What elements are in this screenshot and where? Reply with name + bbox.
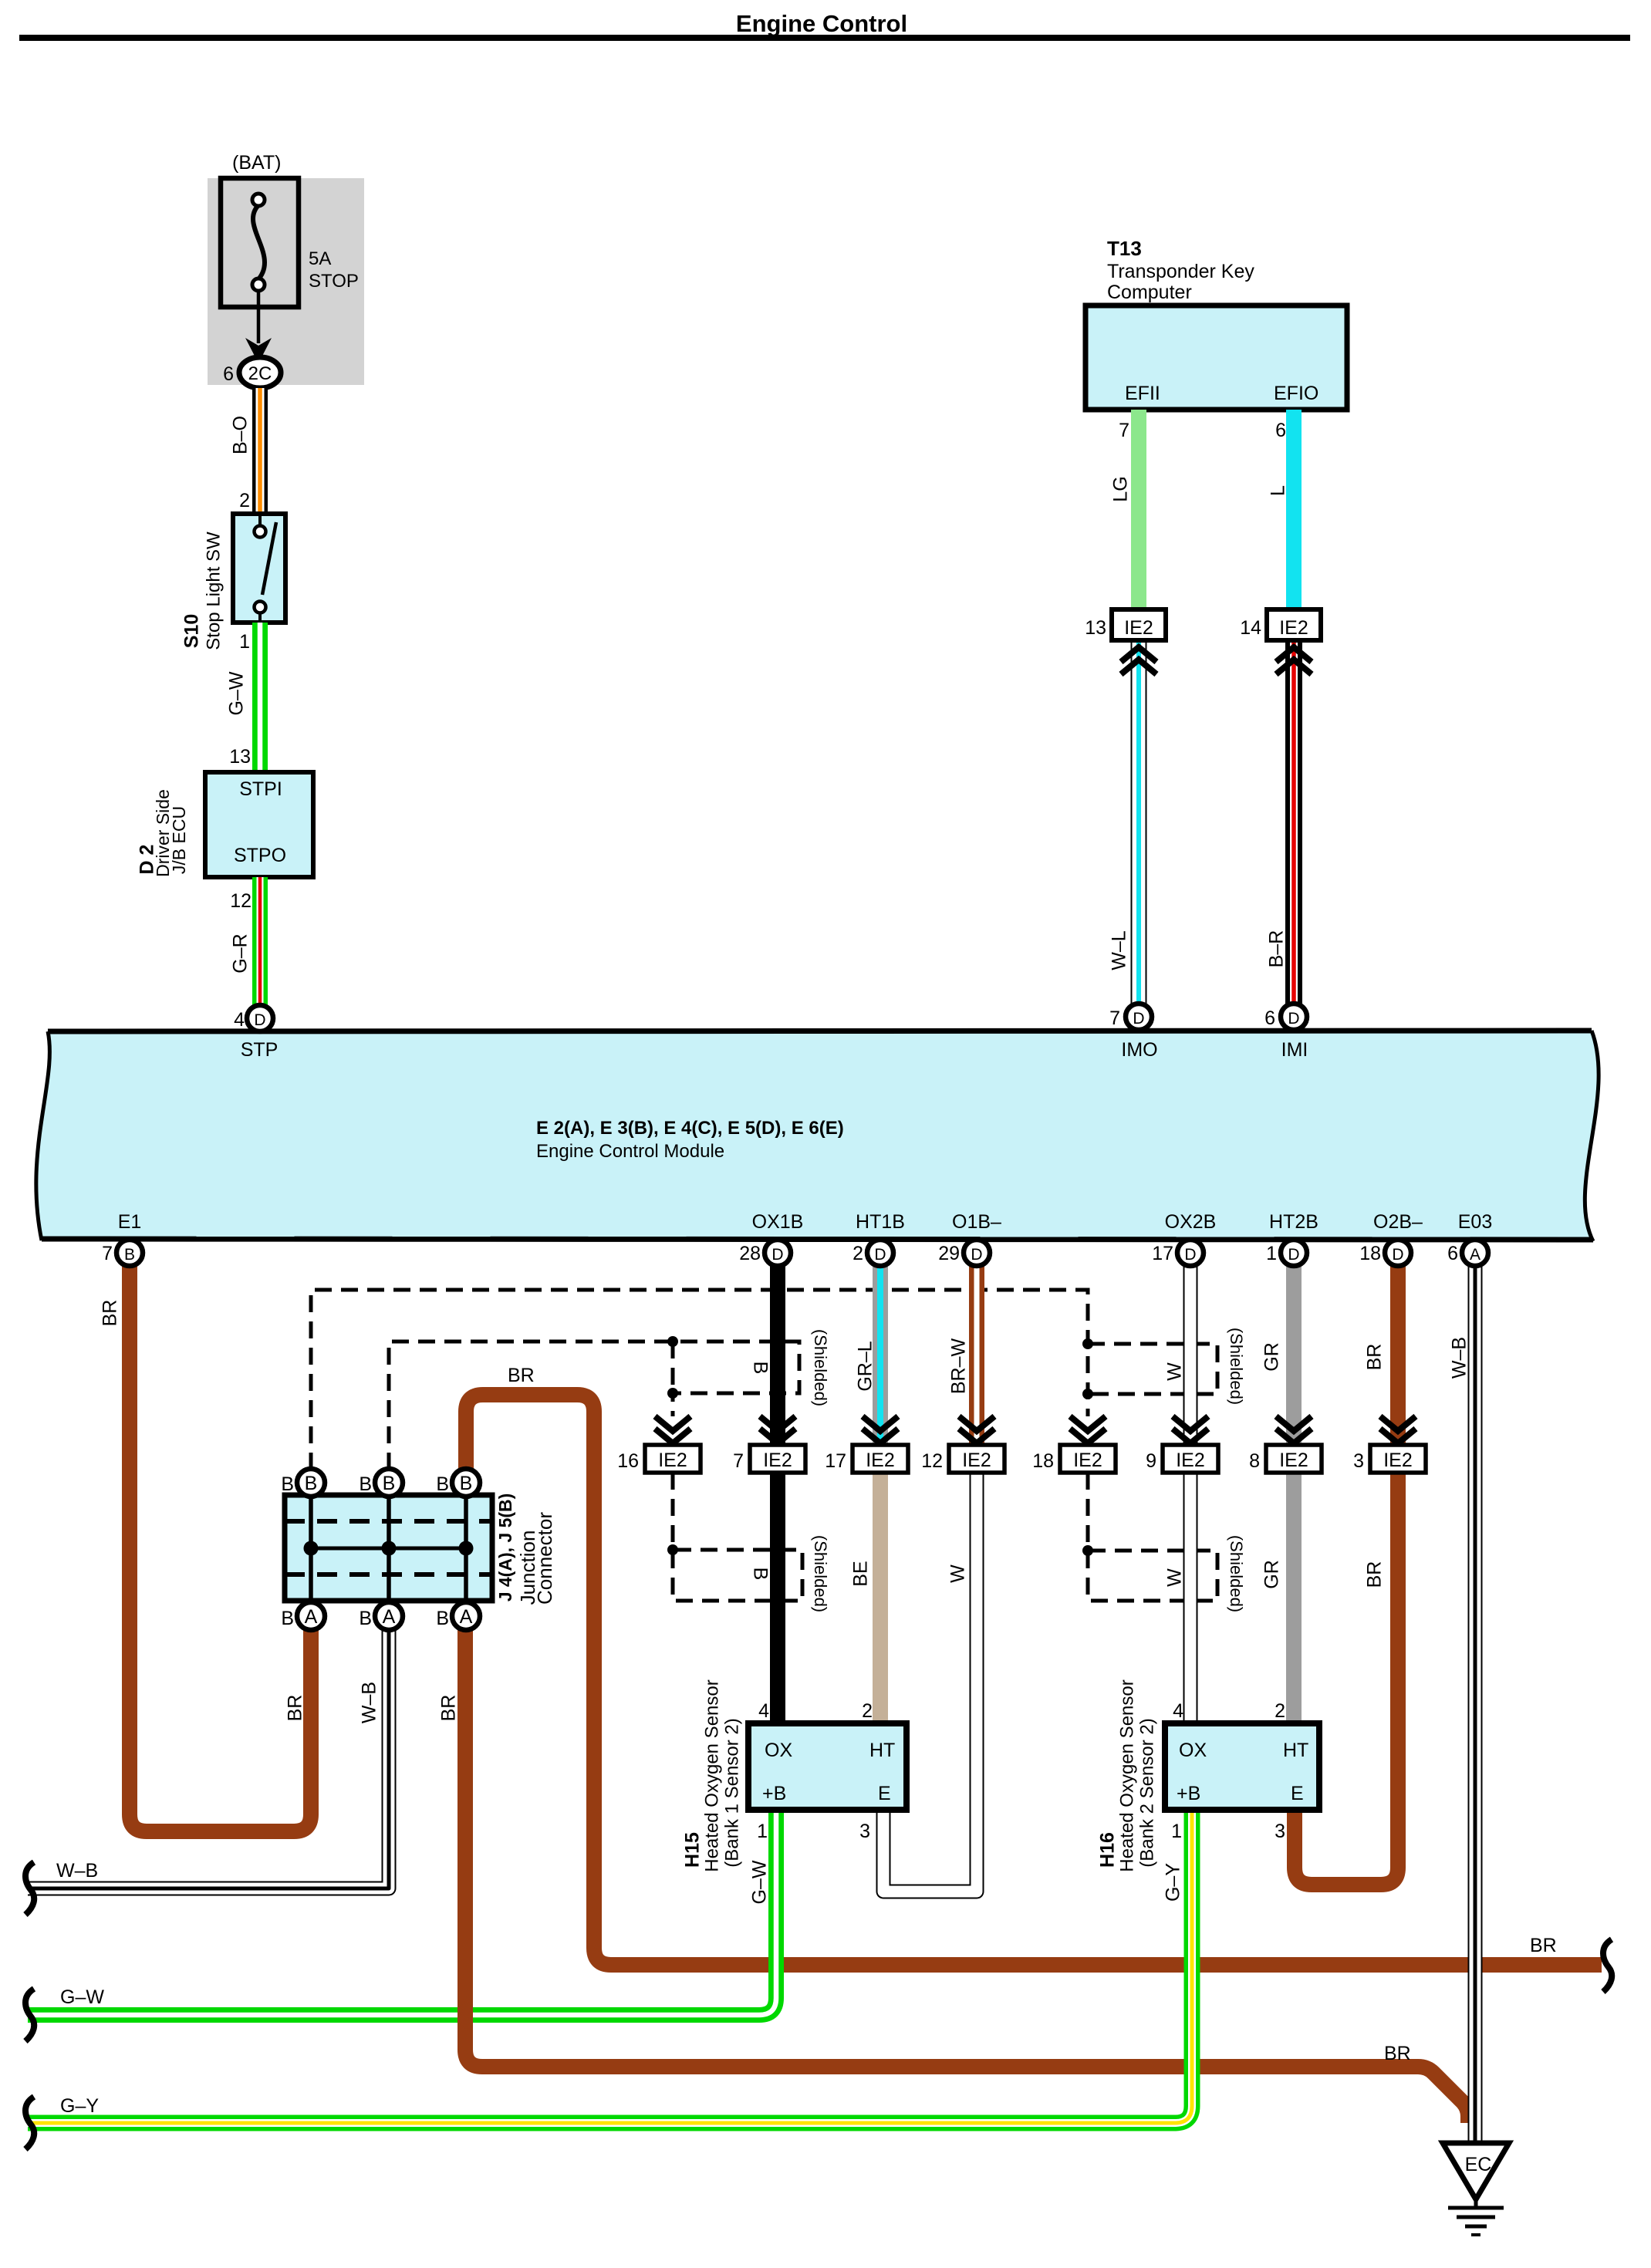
- svg-text:BR: BR: [285, 1695, 306, 1722]
- svg-text:Transponder Key: Transponder Key: [1107, 261, 1254, 282]
- svg-text:D: D: [874, 1246, 886, 1264]
- switch contacts and blade: [258, 514, 262, 526]
- dashed from IE2 16 to lower shield box: [673, 1473, 802, 1601]
- svg-text:7: 7: [1109, 1007, 1120, 1029]
- svg-text:D: D: [1288, 1010, 1299, 1028]
- svg-text:BR: BR: [100, 1300, 121, 1327]
- dashed shield bus 2 (to junction B2 and OX1B shield): [389, 1342, 799, 1470]
- svg-text:B: B: [359, 1608, 372, 1629]
- svg-text:2C: 2C: [248, 363, 272, 384]
- svg-text:B: B: [749, 1568, 771, 1581]
- svg-text:STPO: STPO: [234, 845, 286, 866]
- svg-text:IE2: IE2: [1124, 617, 1153, 639]
- svg-text:J 4(A), J 5(B): J 4(A), J 5(B): [495, 1493, 515, 1602]
- pin 7 D IMO: [1126, 1004, 1152, 1030]
- svg-text:4: 4: [758, 1700, 769, 1722]
- connector box 8 IE2: [1266, 1445, 1322, 1473]
- svg-text:Engine Control: Engine Control: [736, 10, 907, 37]
- svg-text:GR: GR: [1261, 1342, 1283, 1372]
- H15 Heated Oxygen Sensor box: [748, 1723, 907, 1810]
- pin 17 D OX2B: [1177, 1240, 1204, 1266]
- svg-text:IE2: IE2: [763, 1450, 792, 1471]
- svg-text:GR: GR: [1261, 1560, 1283, 1589]
- wire G-W (switch to D2): [252, 623, 268, 772]
- svg-text:9: 9: [1146, 1450, 1156, 1472]
- pin 6 D IMI: [1281, 1004, 1307, 1030]
- svg-text:Stop Light SW: Stop Light SW: [203, 532, 224, 650]
- svg-text:G–W: G–W: [749, 1860, 771, 1904]
- svg-text:W–L: W–L: [1109, 930, 1130, 970]
- svg-text:E: E: [878, 1783, 891, 1804]
- svg-text:HT2B: HT2B: [1269, 1211, 1318, 1233]
- junction internal dashed lines: [285, 1519, 492, 1524]
- svg-text:E1: E1: [118, 1211, 142, 1233]
- svg-text:D: D: [1392, 1246, 1403, 1264]
- wire BR O2B- to H16 E: [1295, 1266, 1398, 1885]
- svg-text:IE2: IE2: [1279, 617, 1308, 639]
- svg-text:12: 12: [921, 1450, 943, 1472]
- EC ground triangle: [1443, 2143, 1509, 2199]
- svg-text:28: 28: [739, 1243, 761, 1264]
- connector box 18 IE2: [1060, 1445, 1116, 1473]
- dashed from IE2 18 to lower shield box: [1088, 1473, 1217, 1601]
- switch S10 Stop Light SW box: [233, 514, 285, 623]
- svg-text:(Shielded): (Shielded): [811, 1535, 830, 1612]
- svg-text:A: A: [305, 1606, 318, 1628]
- svg-text:BR: BR: [1384, 2043, 1411, 2064]
- svg-text:E 2(A), E 3(B), E 4(C), E 5(D): E 2(A), E 3(B), E 4(C), E 5(D), E 6(E): [536, 1118, 844, 1139]
- wire BE IE2 17 to H15 HT: [873, 1473, 888, 1723]
- svg-text:Heated Oxygen Sensor: Heated Oxygen Sensor: [1116, 1679, 1137, 1871]
- band torn left edge: [36, 1031, 50, 1240]
- svg-text:EFII: EFII: [1125, 383, 1160, 404]
- chevron arrow into IE2 13: [1121, 647, 1156, 674]
- wire L (EFIO to IE2 14): [1286, 410, 1302, 609]
- svg-text:1: 1: [1266, 1243, 1277, 1264]
- wire W-B from junction A2 to left margin: [28, 1629, 389, 1888]
- svg-text:STP: STP: [241, 1039, 279, 1061]
- svg-text:B: B: [124, 1246, 135, 1264]
- svg-text:2: 2: [239, 490, 250, 511]
- svg-text:3: 3: [1275, 1821, 1285, 1842]
- node dot OX2B upper a: [1082, 1338, 1093, 1349]
- svg-text:29: 29: [938, 1243, 960, 1264]
- ECM band E2-E6 Engine Control Module: [36, 1031, 1599, 1241]
- svg-text:HT: HT: [1283, 1740, 1308, 1761]
- svg-text:4: 4: [1173, 1700, 1183, 1722]
- svg-text:H15: H15: [682, 1832, 704, 1868]
- svg-text:2: 2: [1275, 1700, 1285, 1722]
- wire GR-L HT1B to IE2 17: [873, 1266, 888, 1445]
- wire B black OX1B to H15 OX: [770, 1266, 785, 1723]
- svg-text:IE2: IE2: [962, 1450, 991, 1471]
- wire G-W from left margin to H15 +B: [28, 1810, 776, 2015]
- wire W-B E03 to EC ground: [1468, 1266, 1483, 2143]
- wire W-L (IE2 13 to ECM pin 7D): [1131, 640, 1147, 1005]
- wire LG (EFII to IE2 13): [1131, 410, 1146, 609]
- svg-text:BR–W: BR–W: [948, 1338, 970, 1394]
- svg-text:(Bank 1 Sensor 2): (Bank 1 Sensor 2): [721, 1718, 742, 1867]
- svg-text:O2B–: O2B–: [1373, 1211, 1423, 1233]
- svg-text:OX: OX: [765, 1740, 792, 1761]
- svg-text:BR: BR: [508, 1365, 535, 1386]
- wire GR HT2B to H16 HT: [1286, 1266, 1302, 1723]
- svg-text:STPI: STPI: [239, 778, 282, 800]
- svg-text:+B: +B: [1177, 1783, 1200, 1804]
- svg-text:GR–L: GR–L: [855, 1341, 876, 1391]
- wire G-R (D2 to ECM pin 4D): [252, 877, 268, 1007]
- svg-text:E03: E03: [1458, 1211, 1492, 1233]
- pin 1 D HT2B: [1281, 1240, 1307, 1266]
- junction connector J4 J5 box: [285, 1495, 492, 1601]
- svg-text:IE2: IE2: [658, 1450, 687, 1471]
- svg-text:G–Y: G–Y: [60, 2095, 99, 2117]
- H16 Heated Oxygen Sensor box: [1165, 1723, 1319, 1810]
- svg-text:W: W: [1164, 1362, 1186, 1381]
- svg-text:G–Y: G–Y: [1163, 1863, 1184, 1902]
- T13 box: [1085, 305, 1347, 410]
- svg-text:W: W: [947, 1564, 969, 1583]
- svg-text:IE2: IE2: [1383, 1450, 1413, 1471]
- node dot OX2B upper b: [1082, 1389, 1093, 1399]
- svg-text:7: 7: [102, 1243, 113, 1264]
- chevron arrow into IE2 14: [1276, 647, 1312, 674]
- svg-text:A: A: [460, 1606, 473, 1628]
- svg-text:(BAT): (BAT): [232, 152, 281, 174]
- wire BR loop from junction B3 to right margin (long BR): [466, 1395, 1602, 1965]
- svg-text:IMI: IMI: [1281, 1039, 1308, 1061]
- pin 28 D OX1B: [765, 1240, 791, 1266]
- wire BR from ECM E1 to junction A1: [130, 1266, 311, 1831]
- pin 7 B E1: [116, 1240, 143, 1266]
- svg-text:B–R: B–R: [1266, 930, 1288, 968]
- svg-text:6: 6: [1275, 420, 1286, 441]
- connector oval 2C: [239, 357, 281, 388]
- svg-text:(Shielded): (Shielded): [811, 1329, 830, 1406]
- svg-text:EFIO: EFIO: [1274, 383, 1318, 404]
- svg-text:6: 6: [1447, 1243, 1458, 1264]
- svg-text:7: 7: [733, 1450, 744, 1472]
- wire W from IE2 12 to H15 E: [883, 1473, 977, 1892]
- svg-text:E: E: [1291, 1783, 1304, 1804]
- svg-text:B: B: [281, 1608, 294, 1629]
- svg-text:+B: +B: [762, 1783, 786, 1804]
- pin 29 D O1B-: [964, 1240, 990, 1266]
- svg-text:OX1B: OX1B: [752, 1211, 804, 1233]
- svg-text:16: 16: [617, 1450, 639, 1472]
- svg-text:6: 6: [1264, 1007, 1275, 1029]
- svg-text:3: 3: [859, 1821, 870, 1842]
- svg-text:B: B: [749, 1362, 771, 1375]
- svg-text:1: 1: [1171, 1821, 1182, 1842]
- svg-text:4: 4: [234, 1009, 245, 1031]
- svg-text:1: 1: [239, 631, 250, 653]
- svg-text:HT: HT: [869, 1740, 895, 1761]
- svg-text:B: B: [436, 1608, 449, 1629]
- chevron arrows into IE2 row: [655, 1416, 1416, 1443]
- svg-text:5A: 5A: [309, 248, 331, 269]
- squiggle left G-W: [25, 1989, 34, 2041]
- svg-text:G–R: G–R: [230, 933, 252, 973]
- svg-text:W–B: W–B: [359, 1682, 380, 1723]
- EC ground hatching: [1474, 2199, 1478, 2208]
- OX2B upper shield box dashed: [1088, 1344, 1217, 1394]
- node dot shield left upper a: [667, 1336, 678, 1347]
- fuse 5A STOP rectangle: [221, 178, 299, 307]
- svg-text:B–O: B–O: [230, 416, 252, 454]
- svg-text:J/B ECU: J/B ECU: [169, 806, 189, 874]
- svg-text:D: D: [1184, 1246, 1196, 1264]
- svg-text:Connector: Connector: [533, 1512, 556, 1605]
- svg-text:17: 17: [825, 1450, 846, 1472]
- wire BR from junction A3 to EC ground: [465, 1629, 1468, 2123]
- svg-text:BR: BR: [1530, 1935, 1557, 1956]
- svg-text:B: B: [383, 1473, 396, 1494]
- svg-text:LG: LG: [1110, 476, 1132, 501]
- svg-text:B: B: [359, 1473, 372, 1495]
- svg-text:(Shielded): (Shielded): [1227, 1535, 1246, 1612]
- node dot shield left upper b: [667, 1388, 678, 1399]
- svg-text:A: A: [1470, 1246, 1480, 1264]
- svg-text:H16: H16: [1097, 1832, 1119, 1868]
- svg-text:(Bank 2 Sensor 2): (Bank 2 Sensor 2): [1136, 1718, 1157, 1867]
- svg-text:13: 13: [1085, 617, 1106, 639]
- svg-text:OX2B: OX2B: [1165, 1211, 1217, 1233]
- svg-text:18: 18: [1032, 1450, 1054, 1472]
- svg-text:B: B: [305, 1473, 318, 1494]
- svg-text:S10: S10: [181, 614, 203, 648]
- svg-text:W–B: W–B: [1449, 1337, 1470, 1379]
- svg-text:OX: OX: [1179, 1740, 1207, 1761]
- fuse element S-curve: [253, 205, 265, 279]
- gray fuse background box: [208, 178, 364, 385]
- node dot OX2B lower: [1082, 1545, 1093, 1556]
- connector box 12 IE2: [949, 1445, 1004, 1473]
- connector box 16 IE2: [645, 1445, 701, 1473]
- connector box 14 IE2: [1267, 609, 1321, 640]
- svg-text:B: B: [460, 1473, 473, 1494]
- svg-text:L: L: [1268, 485, 1289, 496]
- wire G-Y from left margin to H16 +B: [28, 1810, 1192, 2123]
- connector box 9 IE2: [1163, 1445, 1218, 1473]
- connector box 3 IE2: [1370, 1445, 1426, 1473]
- svg-text:2: 2: [853, 1243, 863, 1264]
- svg-text:O1B–: O1B–: [952, 1211, 1001, 1233]
- wire BR-W O1B- to IE2 12: [969, 1266, 984, 1445]
- svg-text:D: D: [254, 1011, 265, 1029]
- junction top pin circles B B B: [297, 1469, 325, 1497]
- junction internal bus line with dots: [311, 1547, 466, 1551]
- svg-text:BR: BR: [1364, 1561, 1386, 1588]
- svg-text:G–W: G–W: [60, 1986, 104, 2008]
- svg-text:12: 12: [230, 890, 252, 912]
- svg-text:D: D: [971, 1246, 982, 1264]
- svg-text:3: 3: [1353, 1450, 1364, 1472]
- svg-text:BR: BR: [438, 1695, 460, 1722]
- band torn right edge: [1585, 1031, 1599, 1241]
- D2 Driver Side J/B ECU box: [205, 772, 313, 877]
- svg-text:B: B: [281, 1473, 294, 1495]
- arrow from fuse to connector 2C: [257, 291, 261, 343]
- connector box 7 IE2: [750, 1445, 805, 1473]
- svg-text:D: D: [771, 1246, 783, 1264]
- svg-text:BR: BR: [1364, 1344, 1386, 1371]
- svg-text:Engine Control Module: Engine Control Module: [536, 1141, 724, 1162]
- top rule: [19, 35, 1630, 41]
- pin 6 A E03: [1462, 1240, 1488, 1266]
- pin 4 D STP: [247, 1005, 273, 1031]
- pin 2 D HT1B: [867, 1240, 893, 1266]
- svg-text:STOP: STOP: [309, 271, 359, 292]
- connector box 17 IE2: [853, 1445, 908, 1473]
- svg-text:HT1B: HT1B: [856, 1211, 905, 1233]
- svg-text:W: W: [1164, 1568, 1186, 1587]
- svg-text:A: A: [383, 1606, 396, 1628]
- svg-text:14: 14: [1240, 617, 1261, 639]
- svg-text:IE2: IE2: [1279, 1450, 1308, 1471]
- dashed vertical between dots (OX1B shield left edge): [671, 1342, 675, 1393]
- svg-text:IMO: IMO: [1121, 1039, 1157, 1061]
- svg-text:D: D: [1133, 1010, 1144, 1028]
- svg-text:1: 1: [757, 1821, 768, 1842]
- wire B-R (IE2 14 to ECM pin 6D): [1285, 640, 1302, 1005]
- svg-text:8: 8: [1249, 1450, 1260, 1472]
- squiggle left G-Y: [25, 2097, 34, 2149]
- svg-text:D: D: [1288, 1246, 1299, 1264]
- svg-text:6: 6: [223, 363, 234, 385]
- squiggle left W-B: [25, 1862, 34, 1915]
- junction internal vertical lines: [309, 1495, 313, 1601]
- svg-text:W–B: W–B: [56, 1860, 98, 1882]
- svg-text:T13: T13: [1107, 237, 1142, 260]
- dashed shield bus 1 (to junction B1 and OX2B shield): [311, 1290, 1088, 1470]
- svg-text:18: 18: [1359, 1243, 1381, 1264]
- svg-text:Computer: Computer: [1107, 282, 1192, 303]
- svg-text:(Shielded): (Shielded): [1227, 1328, 1246, 1405]
- wire B-O (fuse to stop light switch): [252, 388, 268, 514]
- svg-text:B: B: [436, 1473, 449, 1495]
- svg-text:G–W: G–W: [226, 671, 248, 715]
- svg-text:Heated Oxygen Sensor: Heated Oxygen Sensor: [701, 1679, 722, 1871]
- svg-text:IE2: IE2: [866, 1450, 895, 1471]
- svg-text:2: 2: [862, 1700, 873, 1722]
- svg-text:EC: EC: [1465, 2154, 1492, 2175]
- svg-text:13: 13: [229, 746, 251, 768]
- junction bottom pin circles A A A: [297, 1602, 325, 1630]
- squiggle right BR: [1603, 1939, 1612, 1992]
- svg-text:17: 17: [1152, 1243, 1173, 1264]
- svg-text:BE: BE: [850, 1561, 872, 1586]
- wire W OX2B to H16 OX: [1183, 1266, 1198, 1723]
- svg-text:IE2: IE2: [1073, 1450, 1102, 1471]
- svg-text:IE2: IE2: [1176, 1450, 1205, 1471]
- pin 18 D O2B-: [1385, 1240, 1411, 1266]
- node dot OX1B lower: [667, 1544, 678, 1555]
- svg-text:7: 7: [1119, 420, 1129, 441]
- connector box 13 IE2: [1112, 609, 1166, 640]
